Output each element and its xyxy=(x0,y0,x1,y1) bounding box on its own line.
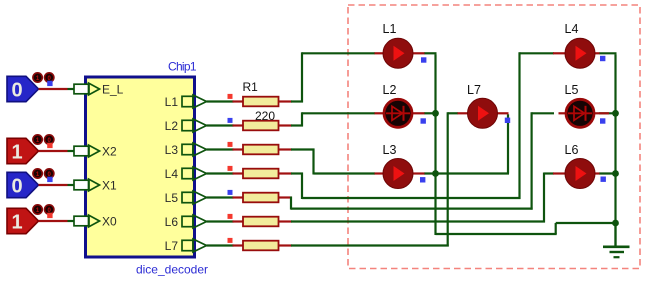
wire chip pin L7 to resistor xyxy=(207,244,234,246)
wire R6 long run right xyxy=(291,220,545,222)
LED L7 anode lead xyxy=(458,112,470,114)
output pin L4 xyxy=(165,167,207,181)
resistor R4 body xyxy=(243,169,279,179)
wire R2 to L2 anode: run right xyxy=(291,124,303,126)
input pin X2 xyxy=(74,145,117,159)
net state square L2 xyxy=(228,118,233,123)
wire R4 long run right xyxy=(302,197,521,199)
input pin X1 xyxy=(74,179,117,193)
wire L4 cathode to right rail xyxy=(599,52,617,54)
wire R4 riser up to L4 xyxy=(518,52,520,199)
left cathode rail xyxy=(434,54,436,235)
net state square L4 xyxy=(228,166,233,171)
svg-text:L5: L5 xyxy=(565,83,579,97)
wire R1 to L1 anode: run right xyxy=(291,100,303,102)
switch toggle button 0 of SW3 (X1 input, logic 0) xyxy=(45,169,54,178)
state indicator square of SW1 (E_L input, logic 0) xyxy=(47,81,52,86)
resistor R3 body xyxy=(243,145,279,155)
resistor R2 left lead xyxy=(233,124,244,126)
wire R3 run right xyxy=(291,148,315,150)
LED L6 cathode lead xyxy=(593,172,600,174)
right cathode rail down to ground xyxy=(614,54,616,246)
resistor R7 left lead xyxy=(233,244,244,246)
net state square L1 xyxy=(228,94,233,99)
junction right rail / L6 cathode xyxy=(612,170,619,177)
cathode state square at LED L7 xyxy=(505,118,510,123)
lead of SW4 (X0 input, logic 1) xyxy=(39,220,68,222)
logic switch SW2 (X2 input, logic 1) xyxy=(7,138,39,163)
svg-text:L1: L1 xyxy=(165,95,179,109)
LED L2 body (off) xyxy=(384,99,412,127)
resistor R5 body xyxy=(243,193,279,203)
cathode state square at LED L6 xyxy=(601,177,606,182)
svg-text:L5: L5 xyxy=(165,191,179,205)
input pin X0 xyxy=(74,215,117,229)
svg-text:0: 0 xyxy=(11,80,22,102)
resistor R1 body xyxy=(243,97,279,107)
net state square L5 xyxy=(228,190,233,195)
LED L7 body (lit) xyxy=(468,98,498,128)
wire R6 riser up to L6 xyxy=(543,173,545,223)
resistor R5 left lead xyxy=(233,196,244,198)
wire L3 cathode row joining rail and L7 cathode xyxy=(424,172,509,174)
switch toggle button 1 of SW2 (X2 input, logic 1) xyxy=(33,135,42,144)
switch toggle button 1 of SW4 (X0 input, logic 1) xyxy=(33,205,42,214)
LED L6 anode lead xyxy=(553,172,567,174)
output pin L7 xyxy=(165,239,207,253)
wire chip pin L6 to resistor xyxy=(207,220,234,222)
wire L5 cathode to right rail xyxy=(599,112,616,114)
resistor R3 right lead xyxy=(279,148,293,150)
wire SW4 (X0 input, logic 1) to chip pin xyxy=(68,220,76,222)
lead of SW1 (E_L input, logic 0) xyxy=(39,88,68,90)
wire R4 run right xyxy=(291,172,303,174)
LED L5 cathode lead xyxy=(593,112,609,114)
logic switch SW4 (X0 input, logic 1) xyxy=(7,208,39,233)
wire R5 drop down xyxy=(290,197,292,210)
wire R3 drop down xyxy=(312,149,314,175)
output pin L1 xyxy=(165,95,207,109)
wire along LED bottom row to L3 xyxy=(314,172,376,174)
svg-text:220: 220 xyxy=(255,109,275,123)
switch toggle button 1 of SW3 (X1 input, logic 0) xyxy=(33,169,42,178)
svg-text:L1: L1 xyxy=(383,22,397,36)
junction left rail / L3 and L7 cathode xyxy=(432,170,439,177)
svg-text:X1: X1 xyxy=(102,179,117,193)
net state square L7 xyxy=(228,238,233,243)
wire R1 riser up xyxy=(301,52,303,102)
lead of SW3 (X1 input, logic 0) xyxy=(39,184,68,186)
wire chip pin L5 to resistor xyxy=(207,196,234,198)
wire step up xyxy=(555,223,557,234)
LED L3 body (lit) xyxy=(383,159,413,189)
svg-text:1: 1 xyxy=(11,212,22,234)
resistor R2 right lead xyxy=(279,124,293,126)
junction right rail / ground link xyxy=(612,220,619,227)
LED L2 anode lead xyxy=(375,112,386,114)
state indicator square of SW2 (X2 input, logic 1) xyxy=(47,143,52,148)
wire R4 drop down xyxy=(301,173,303,200)
svg-text:L7: L7 xyxy=(165,239,179,253)
input pin E_L xyxy=(74,83,124,97)
resistor R4 left lead xyxy=(233,172,244,174)
svg-text:Chip1: Chip1 xyxy=(168,60,197,74)
logic switch SW1 (E_L input, logic 0) xyxy=(7,76,39,101)
wire along LED mid row to L2 xyxy=(302,112,375,114)
LED L1 anode lead xyxy=(375,52,386,54)
svg-text:E_L: E_L xyxy=(102,83,124,97)
resistor R7 right lead xyxy=(279,244,293,246)
wire along LED top row to L1 xyxy=(302,52,375,54)
svg-text:L4: L4 xyxy=(165,167,179,181)
svg-text:X0: X0 xyxy=(102,215,117,229)
svg-text:L6: L6 xyxy=(165,215,179,229)
switch toggle button 0 of SW4 (X0 input, logic 1) xyxy=(45,205,54,214)
wire bottom row to L6 anode xyxy=(544,172,554,174)
wire rail bottom run right xyxy=(436,233,557,235)
ground symbol xyxy=(603,223,630,257)
LED L4 body (lit) xyxy=(565,38,595,68)
LED L4 cathode lead xyxy=(593,52,600,54)
output pin L2 xyxy=(165,119,207,133)
resistor R1 left lead xyxy=(233,100,244,102)
LED L3 cathode lead xyxy=(411,172,425,174)
dashed selection frame around LED display block xyxy=(348,5,640,269)
LED L6 body (lit) xyxy=(565,159,595,189)
cathode state square at LED L1 xyxy=(421,57,426,62)
junction left rail / L2 cathode xyxy=(432,110,439,117)
resistor R6 left lead xyxy=(233,220,244,222)
chip U1 Chip1 dice_decoder body xyxy=(86,77,195,257)
state indicator square of SW3 (X1 input, logic 0) xyxy=(47,177,52,182)
wire R7 long run right xyxy=(291,244,449,246)
state indicator square of SW4 (X0 input, logic 1) xyxy=(47,213,52,218)
wire L6 cathode to right rail xyxy=(599,172,616,174)
resistor R3 left lead xyxy=(233,148,244,150)
wire chip pin L1 to resistor xyxy=(207,100,234,102)
svg-text:dice_decoder: dice_decoder xyxy=(136,263,208,277)
cathode state square at LED L3 xyxy=(420,177,425,182)
svg-text:L6: L6 xyxy=(565,143,579,157)
switch toggle button 0 of SW2 (X2 input, logic 1) xyxy=(45,135,54,144)
wire SW1 (E_L input, logic 0) to chip pin xyxy=(68,88,76,90)
svg-text:L2: L2 xyxy=(383,83,397,97)
wire L7 cathode drop xyxy=(507,114,509,173)
wire R5 long run right xyxy=(291,208,533,210)
junction right rail / L5 cathode xyxy=(612,110,619,117)
LED L5 body (off) xyxy=(566,99,594,127)
LED L4 anode lead xyxy=(553,52,567,54)
wire step run right to ground rail xyxy=(556,222,616,224)
svg-text:0: 0 xyxy=(11,176,22,198)
net state square L3 xyxy=(228,142,233,147)
cathode state square at LED L4 xyxy=(600,56,605,61)
cathode state square at LED L2 xyxy=(421,118,426,123)
cathode state square at LED L5 xyxy=(600,118,605,123)
wire mid row to L5 anode xyxy=(532,112,554,114)
resistor R7 body xyxy=(243,241,279,251)
switch toggle button 1 of SW1 (E_L input, logic 0) xyxy=(33,73,42,82)
output pin L6 xyxy=(165,215,207,229)
svg-text:1: 1 xyxy=(11,142,22,164)
wire SW3 (X1 input, logic 0) to chip pin xyxy=(68,184,76,186)
svg-text:L2: L2 xyxy=(165,119,179,133)
wire L1 cathode to left rail xyxy=(424,52,437,54)
output pin L5 xyxy=(165,191,207,205)
lead of SW2 (X2 input, logic 1) xyxy=(39,150,68,152)
wire R2 riser up xyxy=(301,112,303,126)
svg-text:L7: L7 xyxy=(467,83,481,97)
resistor R1 right lead xyxy=(279,100,293,102)
wire SW2 (X2 input, logic 1) to chip pin xyxy=(68,150,76,152)
logic switch SW3 (X1 input, logic 0) xyxy=(7,172,39,197)
wire chip pin L2 to resistor xyxy=(207,124,234,126)
LED L1 cathode lead xyxy=(411,52,425,54)
resistor R5 right lead xyxy=(279,196,293,198)
svg-text:R1: R1 xyxy=(243,80,259,94)
switch toggle button 0 of SW1 (E_L input, logic 0) xyxy=(45,73,54,82)
LED L7 cathode lead xyxy=(496,112,509,114)
wire R7 riser up to L7 xyxy=(447,112,449,246)
LED L5 anode lead xyxy=(559,112,568,114)
wire mid row to L7 anode xyxy=(448,112,458,114)
LED L2 cathode lead xyxy=(411,112,425,114)
wire chip pin L4 to resistor xyxy=(207,172,234,174)
resistor R4 right lead xyxy=(279,172,293,174)
svg-text:L4: L4 xyxy=(565,22,579,36)
wire R5 riser up to L5 xyxy=(530,112,532,209)
wire chip pin L3 to resistor xyxy=(207,148,234,150)
svg-text:X2: X2 xyxy=(102,145,117,159)
LED L1 body (lit) xyxy=(383,38,413,68)
wire top row to L4 anode xyxy=(520,52,555,54)
resistor R2 body xyxy=(243,121,279,131)
svg-text:L3: L3 xyxy=(383,143,397,157)
wire L2 cathode to rail xyxy=(424,112,436,114)
resistor R6 body xyxy=(243,217,279,227)
resistor R6 right lead xyxy=(279,220,293,222)
LED L3 anode lead xyxy=(375,172,386,174)
svg-text:L3: L3 xyxy=(165,143,179,157)
output pin L3 xyxy=(165,143,207,157)
net state square L6 xyxy=(228,214,233,219)
